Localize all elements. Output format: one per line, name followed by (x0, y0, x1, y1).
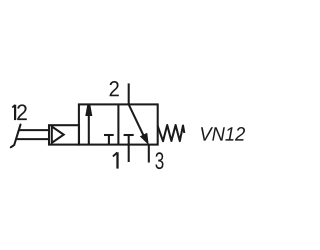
label 1 (bottom port) (113, 152, 118, 168)
pilot line upper (19, 129, 50, 131)
valve body box (two positions) (79, 104, 158, 144)
flow diagonal right box (2-3 exhaust) (129, 104, 144, 136)
pilot line lower (16, 138, 49, 140)
pilot triangle (52, 127, 64, 143)
label 3 (bottom port) (155, 152, 163, 169)
blocked port right box (128, 135, 130, 145)
spring return (158, 125, 185, 141)
port 2 line (128, 83, 130, 104)
flow arrowhead up (left box) (85, 105, 92, 116)
label VN12 (201, 127, 245, 141)
pilot stroke mark 12 (11, 125, 21, 148)
pilot box (49, 125, 79, 144)
port 3 line (148, 145, 150, 163)
flow arrowhead diagonal (right box) (141, 133, 149, 144)
blocked port left box (108, 135, 110, 145)
label 2 (top port) (110, 81, 119, 96)
position divider (117, 104, 119, 144)
port 1 line (128, 145, 130, 162)
label 12 (pilot) digit 2 (17, 104, 27, 120)
label 12 (pilot) digit 1 (12, 105, 15, 120)
flow arrow left box (1-2 pass) (88, 115, 90, 145)
